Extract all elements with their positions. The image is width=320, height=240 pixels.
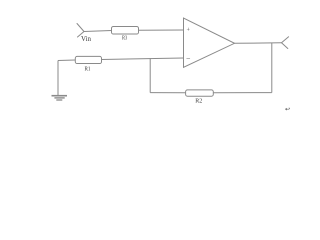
resistor R2 [186,90,214,96]
svg-text:R3: R3 [122,36,127,42]
svg-text:↩: ↩ [285,107,290,113]
wire R2 to right vertical [213,92,271,94]
ground [52,61,68,101]
wire R1 to op-amp - input [102,58,184,60]
wire op-amp output [235,42,282,45]
resistor R1 [75,56,101,63]
svg-text:–: – [186,55,191,63]
op-amp U1 [184,18,235,67]
svg-text:Vin: Vin [81,36,92,43]
svg-text:R1: R1 [85,65,91,72]
wire ground branch to R1 [58,59,75,62]
wire R3 to op-amp + input [139,29,184,31]
output terminal [282,37,289,49]
wire feedback right vertical [271,43,273,93]
resistor R3 [112,27,139,35]
wire feedback bottom left to R2 [150,92,185,94]
svg-text:+: + [187,28,191,34]
wire feedback left vertical [149,58,151,92]
svg-text:R2: R2 [195,98,202,105]
input terminal Vin [77,24,84,38]
wire Vin to R3 [84,31,112,32]
